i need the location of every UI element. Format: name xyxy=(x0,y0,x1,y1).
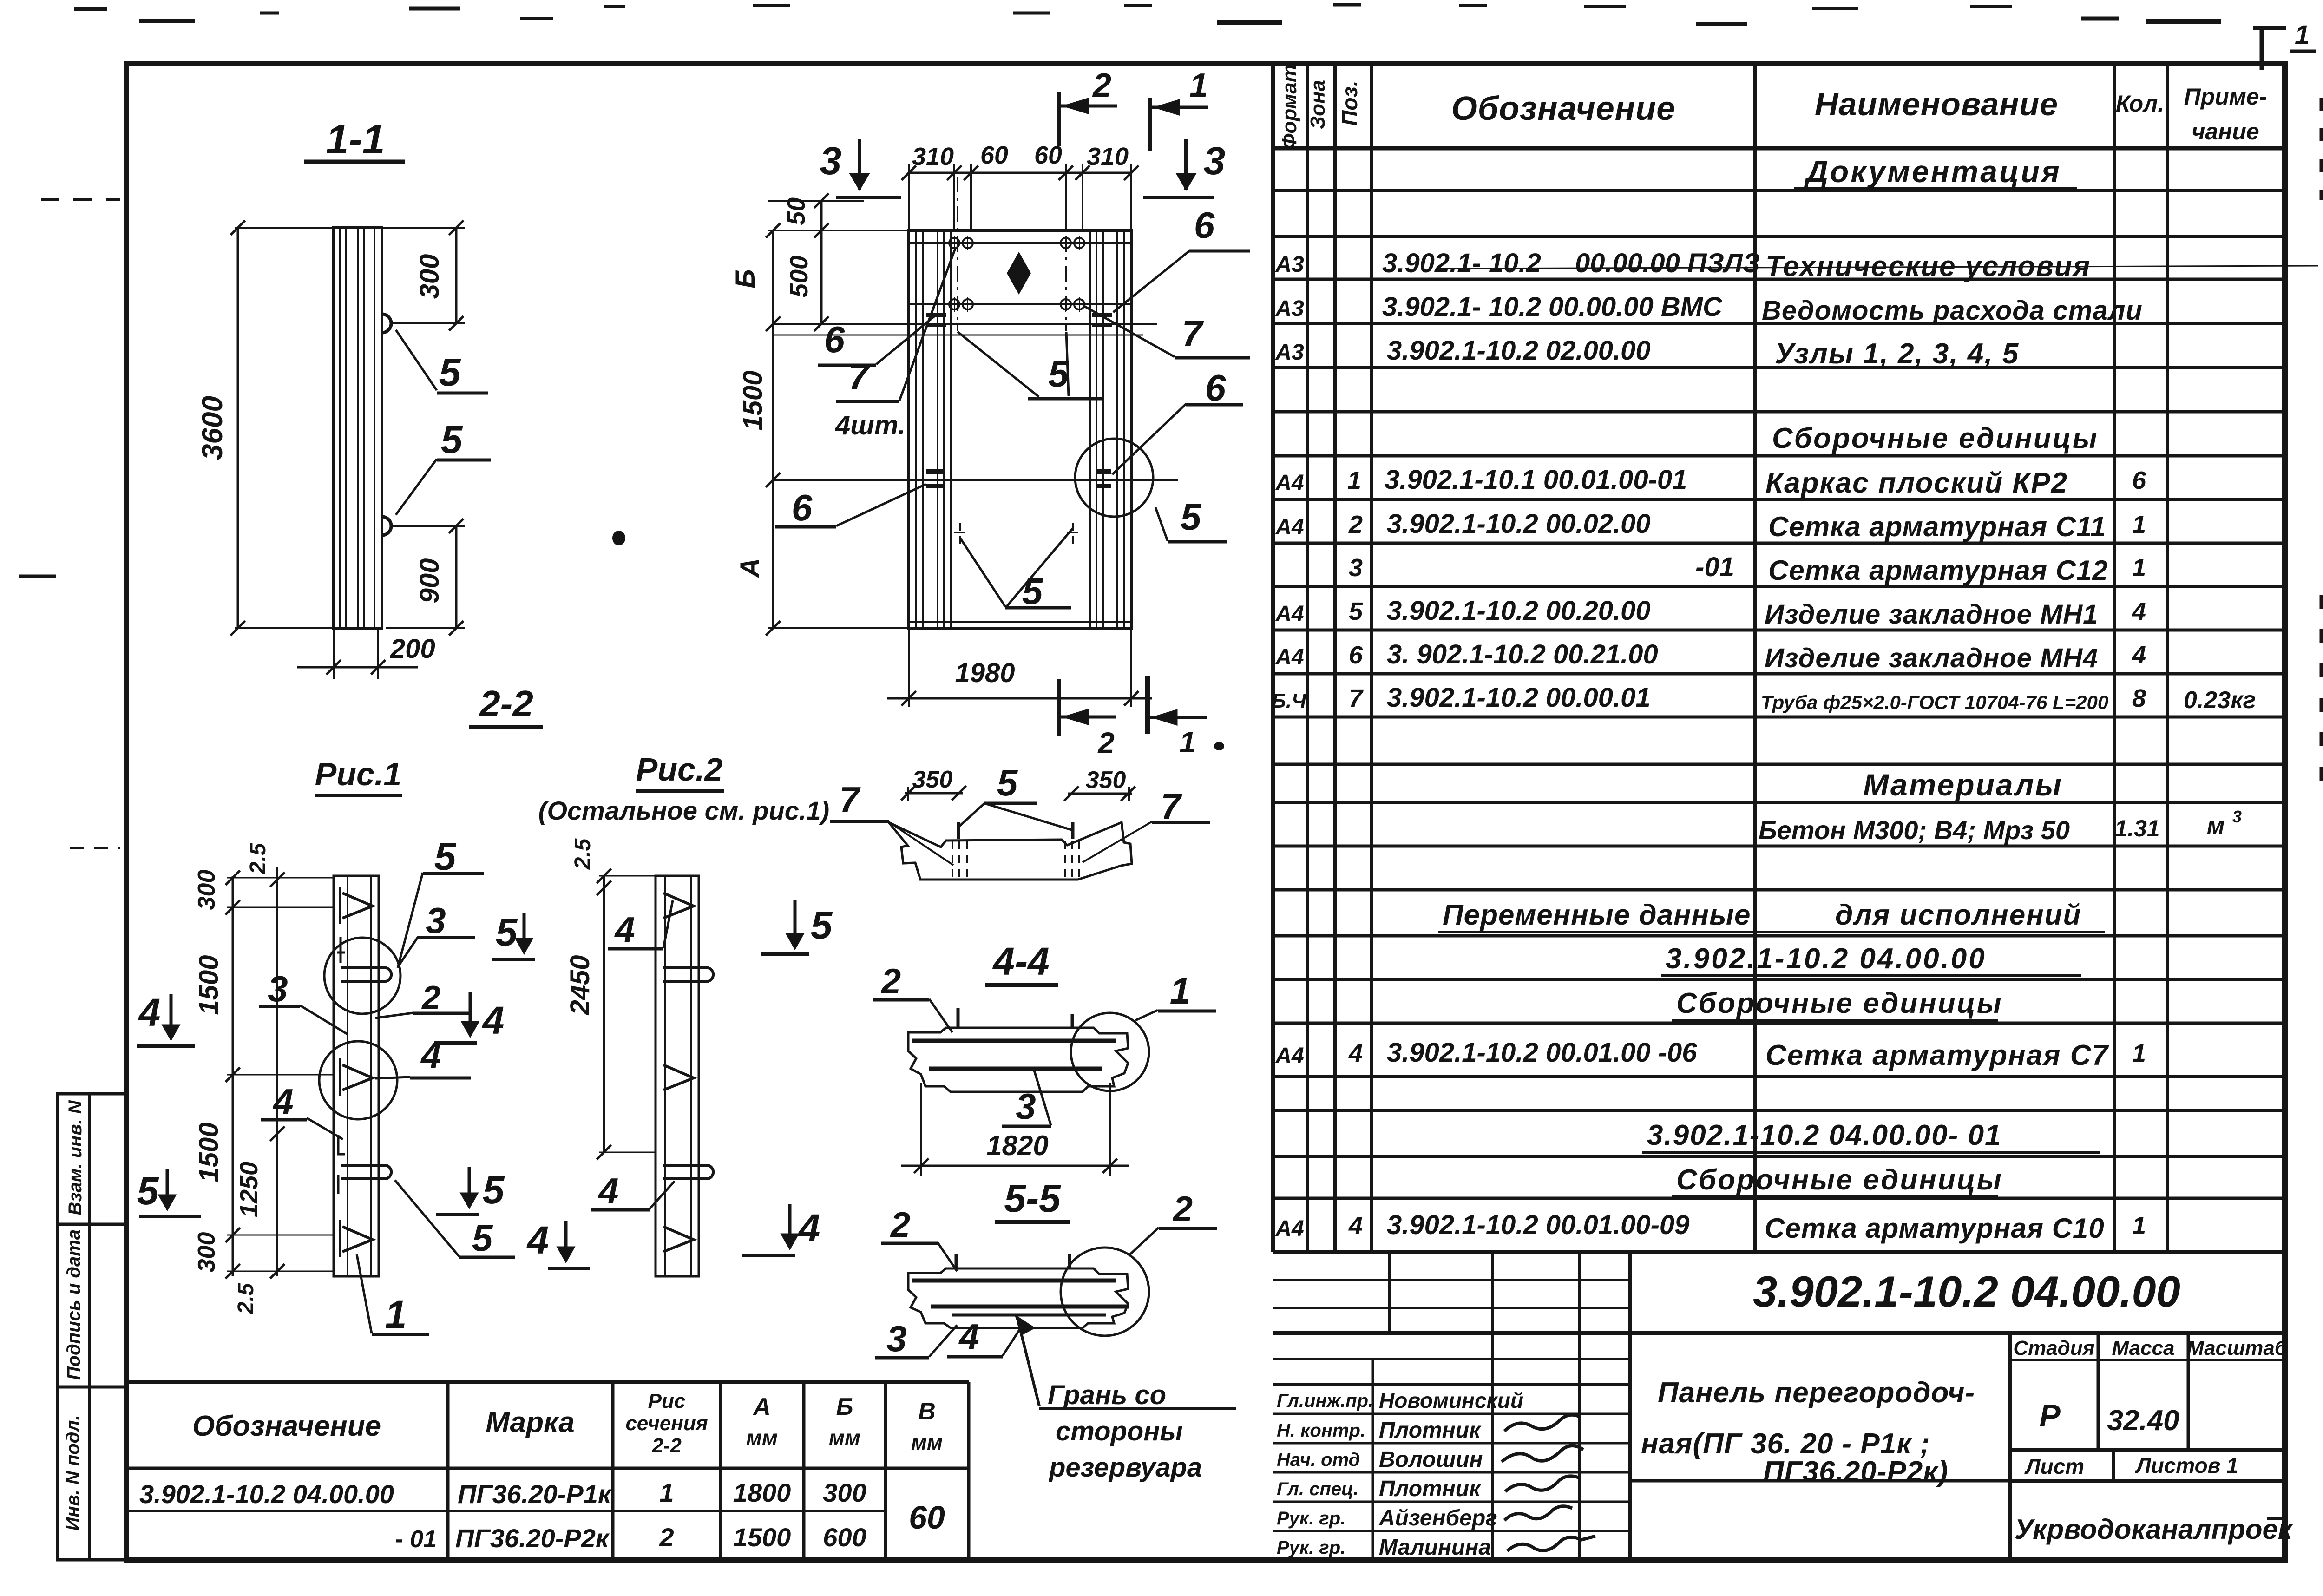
plan view: panel outline xyxy=(909,230,1131,628)
svg-text:5: 5 xyxy=(1181,496,1202,538)
svg-text:Труба ф25×2.0-ГОСТ 10704-76 L=: Труба ф25×2.0-ГОСТ 10704-76 L=200 xyxy=(1761,691,2108,713)
svg-text:Сборочные единицы: Сборочные единицы xyxy=(1772,422,2099,454)
svg-text:3.902.1-10.2 04.00.00: 3.902.1-10.2 04.00.00 xyxy=(1666,943,1987,975)
Рис.2: panel bar xyxy=(656,876,699,1276)
svg-text:7: 7 xyxy=(1349,684,1364,712)
svg-text:2-2: 2-2 xyxy=(651,1434,682,1457)
svg-text:1: 1 xyxy=(2132,1212,2146,1240)
svg-text:4: 4 xyxy=(482,998,505,1042)
svg-text:Гл. спец.: Гл. спец. xyxy=(1277,1479,1358,1499)
svg-text:Нач. отд: Нач. отд xyxy=(1277,1450,1360,1470)
svg-text:5: 5 xyxy=(441,418,463,461)
section 1-1: lifting loop top xyxy=(382,314,391,333)
svg-text:4-4: 4-4 xyxy=(992,939,1049,983)
svg-text:3600: 3600 xyxy=(197,396,229,460)
svg-text:1: 1 xyxy=(2132,554,2146,582)
Рис.2: dim 2450 xyxy=(603,876,605,1152)
svg-text:8: 8 xyxy=(2132,684,2146,712)
svg-text:Сетка арматурная С10: Сетка арматурная С10 xyxy=(1765,1213,2105,1244)
svg-text:4шт.: 4шт. xyxy=(835,410,906,440)
scan noise marks along top edge xyxy=(74,7,107,11)
svg-text:3: 3 xyxy=(426,900,446,941)
note arrow: tank side face xyxy=(1018,1322,1039,1406)
svg-text:ПГ36.20-Р2к): ПГ36.20-Р2к) xyxy=(1763,1456,1948,1488)
svg-text:3.902.1- 10.2 00.00.00 ВМС: 3.902.1- 10.2 00.00.00 ВМС xyxy=(1382,292,1723,322)
left margin stamp boxes xyxy=(58,1094,126,1560)
section 4-4: pins xyxy=(957,1008,960,1028)
svg-text:3: 3 xyxy=(268,968,288,1009)
svg-text:5-5: 5-5 xyxy=(1004,1176,1061,1220)
svg-text:5: 5 xyxy=(472,1217,493,1259)
section marks 2 and 1 (top) xyxy=(1057,92,1061,146)
svg-text:4: 4 xyxy=(1348,1039,1363,1067)
svg-text:стороны: стороны xyxy=(1056,1416,1183,1446)
plan view: bolt circles second row xyxy=(949,299,959,309)
svg-text:2-2: 2-2 xyxy=(479,683,533,724)
section 4-4: detail circle xyxy=(1071,1013,1149,1091)
svg-text:Переменные данные: Переменные данные xyxy=(1443,899,1751,931)
svg-text:1: 1 xyxy=(1179,725,1196,759)
svg-text:(Остальное см. рис.1): (Остальное см. рис.1) xyxy=(538,796,829,825)
svg-text:1-1: 1-1 xyxy=(326,116,385,162)
svg-text:2: 2 xyxy=(659,1523,674,1552)
svg-text:3: 3 xyxy=(2232,807,2242,826)
Рис.1: loop bracket top xyxy=(341,968,391,981)
svg-text:1: 1 xyxy=(2132,1039,2146,1067)
svg-text:Сетка арматурная С11: Сетка арматурная С11 xyxy=(1768,511,2106,542)
svg-text:мм: мм xyxy=(746,1425,778,1450)
Рис.2: anchor mark top xyxy=(663,893,694,918)
svg-text:0.23кг: 0.23кг xyxy=(2184,687,2256,714)
dimension 350 (right) xyxy=(1068,793,1132,795)
svg-text:Гл.инж.пр.: Гл.инж.пр. xyxy=(1277,1391,1373,1411)
slab section top: pins xyxy=(957,822,960,839)
svg-text:сечения: сечения xyxy=(625,1412,708,1435)
Рис.1: section mark 4 (right) xyxy=(469,992,472,1035)
svg-text:200: 200 xyxy=(390,634,435,664)
svg-text:2.5: 2.5 xyxy=(571,838,595,870)
svg-text:350: 350 xyxy=(912,766,953,793)
svg-text:Масса: Масса xyxy=(2112,1337,2174,1360)
svg-text:3: 3 xyxy=(1204,139,1226,183)
svg-text:Грань со: Грань со xyxy=(1048,1380,1166,1410)
svg-text:1820: 1820 xyxy=(986,1130,1048,1161)
svg-text:Сборочные единицы: Сборочные единицы xyxy=(1676,1164,2003,1196)
svg-text:3: 3 xyxy=(1016,1086,1036,1127)
svg-text:4: 4 xyxy=(420,1035,441,1076)
svg-text:1: 1 xyxy=(1347,466,1361,494)
svg-text:А3: А3 xyxy=(1275,252,1304,277)
svg-text:Рис.1: Рис.1 xyxy=(315,756,402,792)
svg-text:7: 7 xyxy=(1182,313,1204,354)
svg-text:Зона: Зона xyxy=(1306,80,1329,129)
svg-text:1500: 1500 xyxy=(738,370,768,430)
svg-text:600: 600 xyxy=(823,1523,866,1552)
svg-text:3.902.1-10.2 04.00.00: 3.902.1-10.2 04.00.00 xyxy=(139,1479,394,1509)
svg-text:1500: 1500 xyxy=(733,1523,791,1552)
svg-text:4: 4 xyxy=(1348,1212,1363,1240)
svg-text:Изделие закладное МН1: Изделие закладное МН1 xyxy=(1765,599,2098,630)
svg-text:Сетка арматурная С12: Сетка арматурная С12 xyxy=(1768,555,2108,586)
svg-text:2: 2 xyxy=(1348,511,1363,539)
plan view: black diamond mark xyxy=(1007,252,1031,295)
svg-text:для исполнений: для исполнений xyxy=(1835,899,2081,931)
svg-text:4: 4 xyxy=(138,991,161,1034)
svg-text:3. 902.1-10.2 00.21.00: 3. 902.1-10.2 00.21.00 xyxy=(1387,639,1658,670)
svg-text:3.902.1-10.2 00.20.00: 3.902.1-10.2 00.20.00 xyxy=(1387,596,1651,626)
dimension row 310/60/60/310 (top) xyxy=(909,172,1131,174)
plan view: left rail xyxy=(915,230,917,628)
scan artifact line through row xyxy=(1440,266,2318,269)
svg-text:Р: Р xyxy=(2039,1398,2061,1433)
svg-text:3.902.1-10.2 02.00.00: 3.902.1-10.2 02.00.00 xyxy=(1387,335,1651,366)
svg-text:60: 60 xyxy=(980,141,1008,169)
svg-text:А4: А4 xyxy=(1275,602,1304,626)
svg-text:2: 2 xyxy=(880,962,901,1001)
version table grid xyxy=(126,1380,969,1384)
section marks 2 and 1 (bottom) xyxy=(1057,679,1061,736)
dimension line Б/1500/А (left) xyxy=(772,230,774,628)
svg-text:4: 4 xyxy=(526,1218,549,1262)
section 4-4: rebar bottom xyxy=(929,1067,1102,1071)
svg-text:2450: 2450 xyxy=(565,955,595,1015)
svg-text:5: 5 xyxy=(997,762,1018,803)
svg-text:2: 2 xyxy=(1092,67,1111,104)
Рис.1: detail circle lower xyxy=(319,1041,397,1119)
svg-text:Укрводоканалпроек: Укрводоканалпроек xyxy=(2015,1514,2293,1545)
svg-text:Рис: Рис xyxy=(648,1390,686,1412)
svg-text:Формат: Формат xyxy=(1278,64,1301,150)
svg-text:Материалы: Материалы xyxy=(1863,768,2063,802)
svg-text:1: 1 xyxy=(2132,511,2146,539)
section 5-5: rebar top xyxy=(912,1279,1116,1283)
svg-text:1: 1 xyxy=(385,1293,407,1336)
section 1-1: panel column xyxy=(334,228,382,628)
svg-text:А4: А4 xyxy=(1275,645,1304,670)
slab section top: outline xyxy=(889,822,1132,880)
svg-text:4: 4 xyxy=(597,1170,618,1211)
svg-text:3.902.1-10.2 00.01.00-09: 3.902.1-10.2 00.01.00-09 xyxy=(1387,1210,1689,1240)
svg-text:5: 5 xyxy=(434,834,457,878)
svg-text:50: 50 xyxy=(782,197,810,225)
dimension 3600 (left) xyxy=(237,228,239,628)
svg-text:Рис.2: Рис.2 xyxy=(636,751,723,788)
svg-text:ПГ36.20-Р2к: ПГ36.20-Р2к xyxy=(455,1524,610,1553)
svg-text:Подпись и дата: Подпись и дата xyxy=(64,1229,84,1380)
svg-text:5: 5 xyxy=(811,903,833,947)
svg-text:Обозначение: Обозначение xyxy=(192,1410,381,1442)
slab section top: dashed insert lines left xyxy=(952,841,953,882)
svg-text:Изделие закладное МН4: Изделие закладное МН4 xyxy=(1765,643,2098,673)
svg-text:Сетка арматурная С7: Сетка арматурная С7 xyxy=(1765,1039,2109,1071)
svg-text:- 01: - 01 xyxy=(395,1526,437,1553)
svg-text:3: 3 xyxy=(886,1318,906,1359)
svg-text:3: 3 xyxy=(820,139,842,183)
Рис.2: loop bracket bottom xyxy=(663,1165,713,1179)
Рис.1: section mark 5 (right) xyxy=(468,1167,471,1206)
svg-text:Ведомость расхода стали: Ведомость расхода стали xyxy=(1762,296,2143,326)
section 1-1: lifting loop bottom xyxy=(382,517,391,535)
section 5-5: rebar bottom double xyxy=(931,1305,1129,1309)
svg-text:Масштаб: Масштаб xyxy=(2187,1337,2288,1360)
svg-text:2: 2 xyxy=(890,1205,910,1245)
leader 5 (top loop) xyxy=(396,330,437,390)
svg-text:4: 4 xyxy=(798,1206,820,1250)
svg-text:7: 7 xyxy=(1161,786,1182,827)
plan view: right rail xyxy=(1089,230,1091,628)
svg-text:1500: 1500 xyxy=(194,1122,224,1182)
note text: Грань со стороны резервуара xyxy=(1039,1407,1236,1410)
svg-text:Листов 1: Листов 1 xyxy=(2135,1453,2238,1478)
svg-text:Панель перегородоч-: Панель перегородоч- xyxy=(1658,1377,1975,1409)
svg-text:Марка: Марка xyxy=(486,1406,574,1438)
section 4-4: rebar top xyxy=(912,1039,1116,1043)
section 5-5: detail circle xyxy=(1061,1248,1149,1336)
svg-text:2.5: 2.5 xyxy=(246,842,270,874)
scan noise marks left edge xyxy=(41,198,120,201)
svg-text:м: м xyxy=(2207,812,2225,839)
svg-text:500: 500 xyxy=(785,256,813,297)
svg-text:1.31: 1.31 xyxy=(2114,815,2159,841)
dimension 300 (right top) xyxy=(455,228,458,323)
svg-text:А3: А3 xyxy=(1275,296,1304,321)
svg-text:А3: А3 xyxy=(1275,340,1304,365)
svg-text:7: 7 xyxy=(848,356,871,397)
section 5-5: slab outline xyxy=(908,1268,1128,1328)
svg-text:Кол.: Кол. xyxy=(2116,91,2164,117)
svg-text:300: 300 xyxy=(193,870,220,910)
svg-text:мм: мм xyxy=(911,1430,943,1454)
svg-text:1: 1 xyxy=(1189,67,1208,104)
svg-text:Новоминский: Новоминский xyxy=(1379,1388,1523,1412)
svg-text:Рук. гр.: Рук. гр. xyxy=(1277,1537,1345,1558)
svg-text:3.902.1-10.1 00.01.00-01: 3.902.1-10.1 00.01.00-01 xyxy=(1385,465,1687,495)
svg-text:3.902.1-10.2 00.00.01: 3.902.1-10.2 00.00.01 xyxy=(1387,683,1651,713)
svg-text:4: 4 xyxy=(2132,598,2146,625)
svg-text:6: 6 xyxy=(824,319,845,360)
svg-text:мм: мм xyxy=(829,1425,860,1450)
Рис.1: anchor mark top xyxy=(342,893,373,918)
svg-text:чание: чание xyxy=(2192,118,2259,144)
svg-text:Узлы 1, 2, 3, 4, 5: Узлы 1, 2, 3, 4, 5 xyxy=(1775,338,2019,370)
section 4-4: slab outline xyxy=(908,1028,1128,1092)
svg-text:Плотник: Плотник xyxy=(1379,1477,1482,1501)
Рис.1: anchor mark bottom xyxy=(342,1227,373,1252)
plan view: horizontal line Б boundary xyxy=(773,323,1157,325)
plan view: vertical dash-dot centerlines xyxy=(957,177,958,331)
svg-text:5: 5 xyxy=(137,1169,159,1213)
svg-text:-01: -01 xyxy=(1695,552,1734,582)
Рис.1: anchor mark middle xyxy=(342,1065,373,1090)
svg-text:1: 1 xyxy=(1170,970,1191,1011)
svg-text:Бетон М300; В4; Мрз 50: Бетон М300; В4; Мрз 50 xyxy=(1759,815,2070,845)
svg-text:Лист: Лист xyxy=(2024,1454,2084,1478)
svg-text:Наименование: Наименование xyxy=(1815,86,2058,122)
svg-text:Б: Б xyxy=(836,1393,853,1420)
Рис.2: anchor mark middle xyxy=(663,1065,694,1090)
stray ink dot xyxy=(612,531,625,545)
svg-text:6: 6 xyxy=(2132,466,2146,494)
Рис.2: loop bracket top xyxy=(663,968,713,981)
svg-text:300: 300 xyxy=(193,1232,220,1273)
svg-text:Обозначение: Обозначение xyxy=(1451,90,1676,127)
dimension 900 (right bottom) xyxy=(455,526,458,628)
dimension 1980 (bottom) xyxy=(908,628,910,707)
svg-text:00.00.00 ПЗЛЗ: 00.00.00 ПЗЛЗ xyxy=(1575,248,1760,278)
ink dot right of mark 1 xyxy=(1214,742,1224,750)
svg-text:6: 6 xyxy=(1205,367,1226,408)
svg-text:1500: 1500 xyxy=(194,955,224,1015)
svg-text:Айзенберг: Айзенберг xyxy=(1378,1506,1497,1530)
svg-text:В: В xyxy=(918,1398,936,1425)
svg-text:Сборочные единицы: Сборочные единицы xyxy=(1676,987,2003,1019)
svg-text:Рук. гр.: Рук. гр. xyxy=(1277,1508,1345,1529)
svg-text:2: 2 xyxy=(1172,1189,1193,1229)
svg-text:Приме-: Приме- xyxy=(2184,84,2267,110)
Рис.1: main dim line (300/1500/1500/300) xyxy=(232,876,234,1276)
svg-text:32.40: 32.40 xyxy=(2107,1405,2179,1437)
svg-text:3.902.1-10.2 04.00.00: 3.902.1-10.2 04.00.00 xyxy=(1753,1267,2180,1316)
svg-text:1250: 1250 xyxy=(235,1162,263,1217)
Рис.1: loop bracket bottom xyxy=(341,1165,391,1179)
svg-text:1980: 1980 xyxy=(955,658,1015,688)
svg-text:Плотник: Плотник xyxy=(1379,1418,1482,1443)
dimension 350 (left) xyxy=(905,792,963,795)
svg-text:ПГ36.20-Р1к: ПГ36.20-Р1к xyxy=(458,1479,612,1509)
svg-text:1: 1 xyxy=(2295,20,2310,50)
svg-text:5: 5 xyxy=(483,1168,505,1212)
svg-text:6: 6 xyxy=(1194,204,1215,246)
svg-text:А4: А4 xyxy=(1275,1216,1304,1241)
plan view: horizontal centerline at mid height xyxy=(773,479,1178,481)
svg-text:Инв. N подл.: Инв. N подл. xyxy=(63,1415,83,1531)
svg-text:5: 5 xyxy=(496,910,518,954)
svg-text:4: 4 xyxy=(272,1081,293,1122)
svg-text:3: 3 xyxy=(1349,554,1363,582)
dimension 50/500 (left, nested) xyxy=(820,201,823,324)
section mark 4 (left of 5-5) xyxy=(788,1204,792,1247)
svg-text:900: 900 xyxy=(414,558,445,604)
svg-text:3.902.1-10.2 00.02.00: 3.902.1-10.2 00.02.00 xyxy=(1387,509,1651,539)
slab section top: dashed insert lines right xyxy=(1064,841,1066,882)
svg-text:4: 4 xyxy=(958,1316,979,1357)
Рис.2: anchor mark bottom xyxy=(663,1227,694,1252)
svg-text:Стадия: Стадия xyxy=(2013,1337,2094,1360)
dimension 200 (bottom) xyxy=(333,628,335,679)
svg-text:7: 7 xyxy=(839,779,861,820)
svg-text:2: 2 xyxy=(421,979,440,1017)
svg-text:4: 4 xyxy=(614,909,635,950)
scan noise marks right edge xyxy=(2320,98,2323,200)
svg-text:Документация: Документация xyxy=(1804,154,2061,189)
svg-text:Взам. инв. N: Взам. инв. N xyxy=(65,1100,85,1215)
svg-text:6: 6 xyxy=(1349,641,1363,669)
svg-text:резервуара: резервуара xyxy=(1048,1452,1202,1483)
svg-text:А4: А4 xyxy=(1275,515,1304,539)
svg-text:2: 2 xyxy=(1097,726,1115,760)
svg-text:310: 310 xyxy=(912,143,954,171)
svg-text:310: 310 xyxy=(1087,143,1129,171)
svg-text:5: 5 xyxy=(439,350,461,394)
svg-text:6: 6 xyxy=(792,487,813,528)
svg-text:3.902.1-10.2 00.01.00 -06: 3.902.1-10.2 00.01.00 -06 xyxy=(1387,1038,1697,1068)
plan view: detail circle on right rail xyxy=(1075,439,1153,517)
plan view: embedded bracket marks upper xyxy=(926,313,946,317)
svg-text:Малинина: Малинина xyxy=(1379,1535,1491,1560)
svg-text:3.902.1- 10.2: 3.902.1- 10.2 xyxy=(1382,248,1541,278)
svg-text:ная(ПГ 36. 20 - Р1к ;: ная(ПГ 36. 20 - Р1к ; xyxy=(1641,1428,1930,1460)
svg-text:А4: А4 xyxy=(1275,1044,1304,1068)
title block grid xyxy=(1628,1252,1632,1560)
svg-text:Б: Б xyxy=(730,269,761,288)
specification table grid xyxy=(1271,64,1275,1252)
svg-text:300: 300 xyxy=(414,254,445,299)
dimension 1820 xyxy=(920,1083,922,1176)
section 5-5: pins xyxy=(955,1254,958,1268)
Рис.1: secondary dim line (2.5/1250/2.5) xyxy=(276,867,278,1276)
svg-text:А: А xyxy=(752,1393,771,1420)
title block: signature squiggles xyxy=(1504,1415,1581,1431)
svg-text:60: 60 xyxy=(909,1499,945,1536)
svg-text:300: 300 xyxy=(823,1478,866,1507)
svg-text:5: 5 xyxy=(1349,598,1363,625)
svg-text:Н. контр.: Н. контр. xyxy=(1277,1420,1365,1441)
svg-text:Волошин: Волошин xyxy=(1379,1447,1483,1472)
plan view: bolt circles top row xyxy=(949,238,959,248)
Рис.1: detail circle upper xyxy=(324,938,400,1014)
svg-text:4: 4 xyxy=(2132,641,2146,669)
svg-text:1800: 1800 xyxy=(733,1478,791,1507)
svg-text:А: А xyxy=(735,558,765,578)
svg-text:А4: А4 xyxy=(1275,471,1304,495)
Рис.1: panel bar xyxy=(334,876,379,1276)
svg-text:3.902.1-10.2 04.00.00- 01: 3.902.1-10.2 04.00.00- 01 xyxy=(1647,1119,2002,1151)
section mark 5 (mid left) xyxy=(794,900,797,947)
svg-text:2.5: 2.5 xyxy=(234,1282,258,1314)
svg-text:Б.Ч: Б.Ч xyxy=(1272,690,1306,712)
svg-text:Каркас плоский КР2: Каркас плоский КР2 xyxy=(1765,467,2068,499)
svg-text:Поз.: Поз. xyxy=(1338,80,1362,125)
svg-text:350: 350 xyxy=(1086,767,1126,794)
svg-text:1: 1 xyxy=(659,1478,674,1507)
plan view: embedded bracket marks middle xyxy=(926,469,944,474)
